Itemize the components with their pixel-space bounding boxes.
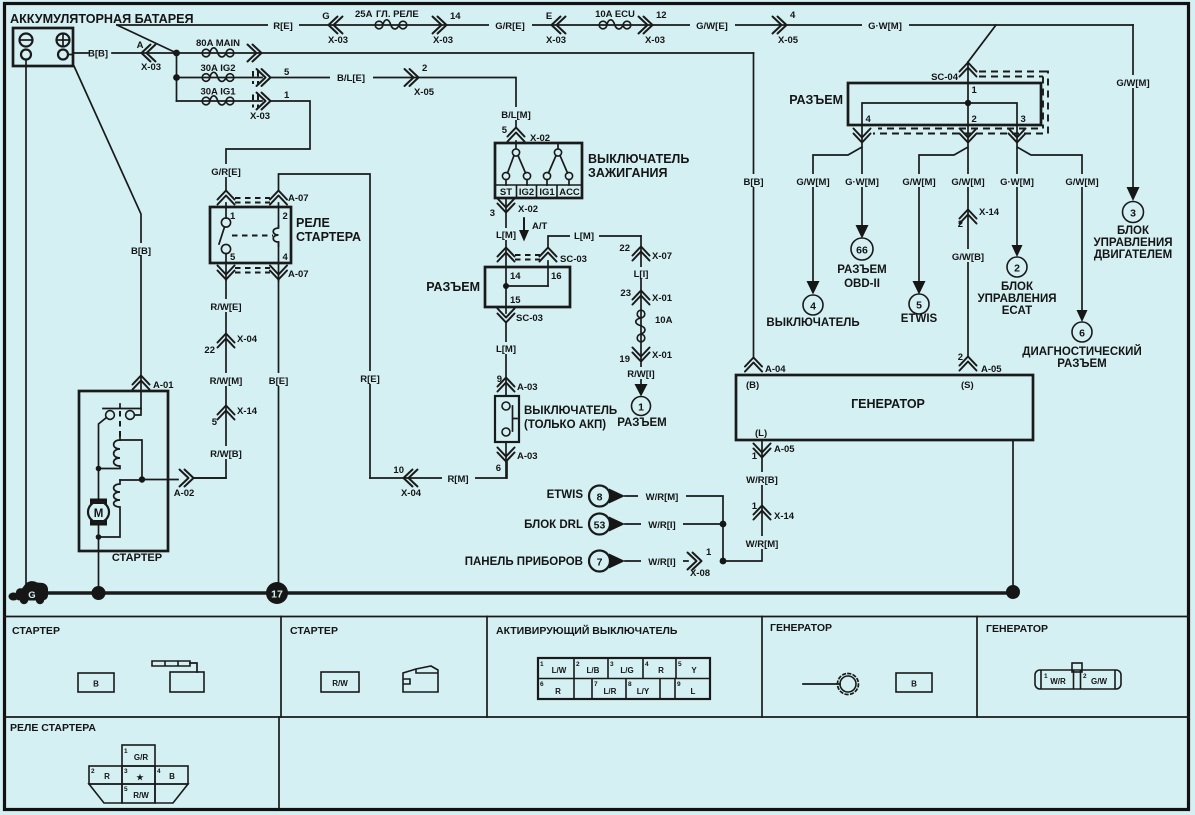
svg-text:R: R bbox=[658, 666, 664, 675]
wire L[M] down to A-03 bbox=[505, 323, 507, 396]
svg-text:L[M]: L[M] bbox=[496, 230, 516, 241]
connector 1 X-08 bbox=[688, 553, 702, 570]
wire below AT switch bbox=[505, 442, 507, 478]
arrow + target 6 diag bbox=[1077, 310, 1088, 322]
svg-text:12: 12 bbox=[656, 10, 667, 21]
svg-text:5: 5 bbox=[678, 661, 682, 668]
svg-text:(L): (L) bbox=[755, 428, 767, 439]
svg-text:G/W[M]: G/W[M] bbox=[902, 177, 935, 188]
svg-text:IG2: IG2 bbox=[519, 187, 534, 198]
svg-text:A: A bbox=[137, 40, 144, 51]
svg-text:СТАРТЕР: СТАРТЕР bbox=[112, 552, 162, 564]
svg-text:23: 23 bbox=[620, 288, 631, 299]
connector 1 X-14 bbox=[754, 506, 771, 520]
svg-text:(B): (B) bbox=[746, 380, 759, 391]
svg-text:B[B]: B[B] bbox=[88, 49, 108, 60]
svg-text:5: 5 bbox=[284, 67, 290, 78]
svg-text:ВЫКЛЮЧАТЕЛЬ: ВЫКЛЮЧАТЕЛЬ bbox=[588, 152, 689, 166]
svg-text:L/B: L/B bbox=[587, 666, 600, 675]
svg-text:17: 17 bbox=[271, 589, 283, 601]
svg-text:G/W[M]: G/W[M] bbox=[796, 177, 829, 188]
wire L pin down bbox=[723, 440, 762, 561]
wire pin2 branches bbox=[919, 125, 968, 356]
legend generator icon bbox=[803, 674, 858, 695]
wire relay pins into box bbox=[226, 203, 279, 226]
svg-text:B/L[E]: B/L[E] bbox=[337, 73, 365, 84]
node A-02 junction bbox=[139, 476, 145, 482]
label R/W[I] bbox=[621, 367, 661, 380]
starter relay K1 box bbox=[210, 207, 291, 263]
svg-text:ДВИГАТЕЛЕМ: ДВИГАТЕЛЕМ bbox=[1094, 249, 1172, 261]
labels G/W[M] row bbox=[791, 174, 836, 188]
label G/W[M] top bbox=[862, 18, 909, 32]
svg-text:W/R[I]: W/R[I] bbox=[648, 520, 675, 531]
connector 6 A-03 bbox=[498, 448, 515, 462]
wire B/L[E] bbox=[271, 78, 516, 129]
svg-text:R[E]: R[E] bbox=[273, 21, 293, 32]
svg-text:АКТИВИРУЮЩИЙ ВЫКЛЮЧАТЕЛЬ: АКТИВИРУЮЩИЙ ВЫКЛЮЧАТЕЛЬ bbox=[496, 624, 678, 637]
connector 2 A-05 bbox=[960, 357, 977, 371]
connector SC-03 below bbox=[498, 309, 515, 323]
svg-text:G/R[E]: G/R[E] bbox=[211, 167, 241, 178]
arrow + target 3 engine ECU bbox=[1127, 187, 1140, 201]
svg-text:IG1: IG1 bbox=[539, 187, 555, 198]
label G/W[B] bbox=[946, 249, 990, 263]
svg-text:7: 7 bbox=[597, 557, 603, 569]
starter motor M bbox=[90, 499, 107, 505]
connector pin3 chevron bbox=[1009, 129, 1026, 143]
svg-text:B[B]: B[B] bbox=[131, 246, 151, 257]
wire pin3 branches bbox=[1017, 125, 1082, 311]
svg-text:4: 4 bbox=[157, 768, 161, 775]
svg-text:10A ECU: 10A ECU bbox=[595, 9, 635, 20]
svg-text:X-07: X-07 bbox=[652, 251, 672, 262]
middle L chain from ignition bbox=[640, 236, 642, 384]
node pin14 junction bbox=[506, 267, 548, 313]
svg-text:80A MAIN: 80A MAIN bbox=[196, 38, 240, 49]
arrow + target 2 ECAT bbox=[1012, 245, 1023, 257]
svg-text:A-07: A-07 bbox=[288, 193, 309, 204]
wire R[E] top row bbox=[117, 24, 1133, 26]
svg-text:8: 8 bbox=[597, 492, 603, 504]
fuse 10A ECU bbox=[599, 20, 631, 29]
wire pin16 up and L[M] branch bbox=[548, 236, 641, 286]
ground bus bbox=[22, 591, 1013, 594]
svg-text:СТАРТЕР: СТАРТЕР bbox=[12, 625, 60, 637]
svg-text:БЛОК DRL: БЛОК DRL bbox=[524, 519, 583, 531]
svg-text:A-03: A-03 bbox=[517, 382, 538, 393]
label R/W[E] bbox=[203, 299, 249, 313]
label L[M] horizontal bbox=[570, 229, 599, 242]
svg-text:X-04: X-04 bbox=[237, 334, 258, 345]
svg-text:ACC: ACC bbox=[559, 187, 580, 198]
svg-text:ETWIS: ETWIS bbox=[901, 313, 938, 325]
svg-text:1: 1 bbox=[752, 501, 758, 512]
label R[M] bbox=[442, 471, 475, 485]
svg-text:X-05: X-05 bbox=[414, 87, 435, 98]
svg-text:A-02: A-02 bbox=[174, 488, 195, 499]
svg-text:L/Y: L/Y bbox=[637, 687, 650, 696]
svg-text:ВЫКЛЮЧАТЕЛЬ: ВЫКЛЮЧАТЕЛЬ bbox=[766, 317, 859, 329]
svg-text:2: 2 bbox=[958, 352, 963, 363]
svg-text:14: 14 bbox=[510, 271, 521, 282]
svg-text:L[I]: L[I] bbox=[634, 269, 649, 280]
wire battery plus B[B] bbox=[68, 53, 176, 55]
legend starter2 connector icon bbox=[403, 666, 438, 692]
svg-text:8: 8 bbox=[628, 681, 632, 688]
svg-text:СТАРТЕРА: СТАРТЕРА bbox=[296, 230, 361, 244]
svg-text:3: 3 bbox=[610, 661, 614, 668]
label R/W[M] bbox=[202, 373, 250, 387]
svg-text:X-03: X-03 bbox=[546, 35, 566, 46]
svg-text:G/W[M]: G/W[M] bbox=[1065, 177, 1098, 188]
arrow + target 5 ETWIS bbox=[913, 281, 926, 295]
connector block SC-03 (РАЗЪЕМ) bbox=[485, 267, 570, 307]
wire battery minus to ground bbox=[25, 60, 27, 585]
svg-text:1: 1 bbox=[706, 547, 712, 558]
svg-text:L/G: L/G bbox=[620, 666, 633, 675]
svg-text:G/R: G/R bbox=[134, 753, 148, 762]
svg-text:X-03: X-03 bbox=[250, 111, 270, 122]
svg-text:РЕЛЕ СТАРТЕРА: РЕЛЕ СТАРТЕРА bbox=[10, 722, 96, 734]
svg-text:B[E]: B[E] bbox=[269, 376, 289, 387]
svg-text:30A IG1: 30A IG1 bbox=[200, 87, 236, 98]
svg-text:Y: Y bbox=[691, 666, 697, 675]
starter coil 1 top link bbox=[120, 440, 142, 480]
legend table frame bbox=[4, 616, 1189, 618]
label W/R[B] bbox=[739, 472, 785, 486]
svg-text:9: 9 bbox=[497, 374, 502, 385]
target circle 1 РАЗЪЕМ bbox=[632, 397, 651, 416]
svg-text:1: 1 bbox=[972, 85, 978, 96]
svg-text:2: 2 bbox=[422, 63, 427, 74]
legend starter connector icon bbox=[152, 661, 204, 692]
svg-text:УПРАВЛЕНИЯ: УПРАВЛЕНИЯ bbox=[1094, 237, 1173, 249]
svg-text:3: 3 bbox=[1021, 114, 1026, 125]
ignition switch contacts bbox=[502, 143, 572, 185]
connector A X-03 bbox=[142, 45, 156, 62]
label B[E] bbox=[265, 373, 293, 387]
svg-text:1: 1 bbox=[1044, 673, 1048, 680]
label L[M] bbox=[492, 228, 521, 241]
svg-text:АККУМУЛЯТОРНАЯ БАТАРЕЯ: АККУМУЛЯТОРНАЯ БАТАРЕЯ bbox=[10, 12, 194, 26]
svg-text:РЕЛЕ: РЕЛЕ bbox=[296, 216, 330, 230]
svg-text:3: 3 bbox=[124, 768, 128, 775]
svg-text:2: 2 bbox=[1083, 673, 1087, 680]
svg-text:X-14: X-14 bbox=[237, 406, 258, 417]
svg-text:R/W: R/W bbox=[133, 791, 149, 800]
wire relay pin2 feed bbox=[279, 174, 371, 478]
connector pin2 chevron bbox=[960, 129, 977, 143]
svg-text:SC-03: SC-03 bbox=[560, 254, 587, 265]
relay coil bbox=[273, 226, 278, 246]
svg-text:66: 66 bbox=[856, 245, 868, 257]
svg-text:ГЛ. РЕЛЕ: ГЛ. РЕЛЕ bbox=[376, 9, 419, 20]
svg-text:ЗАЖИГАНИЯ: ЗАЖИГАНИЯ bbox=[588, 166, 667, 180]
svg-text:ГЕНЕРАТОР: ГЕНЕРАТОР bbox=[986, 623, 1048, 635]
node battery junction bbox=[173, 50, 180, 57]
svg-text:5: 5 bbox=[124, 786, 128, 793]
svg-text:W/R[I]: W/R[I] bbox=[648, 557, 675, 568]
arrow + target 4 bbox=[807, 281, 820, 295]
connector A-02 bbox=[180, 470, 194, 487]
node 17 bbox=[266, 582, 288, 604]
svg-text:РАЗЪЕМ: РАЗЪЕМ bbox=[426, 280, 480, 294]
legend generator B box bbox=[896, 673, 932, 692]
svg-text:1: 1 bbox=[638, 402, 644, 414]
svg-text:1: 1 bbox=[284, 90, 290, 101]
svg-text:X-03: X-03 bbox=[141, 62, 161, 73]
label G/W[E] bbox=[690, 18, 735, 32]
wire A-02 out bbox=[142, 478, 226, 480]
svg-text:G/W[B]: G/W[B] bbox=[952, 252, 984, 263]
wire B[B] right bbox=[753, 53, 755, 357]
connector 3 X-02 bbox=[498, 199, 515, 213]
svg-text:W/R[M]: W/R[M] bbox=[646, 492, 679, 503]
svg-text:15: 15 bbox=[510, 295, 521, 306]
svg-text:X-02: X-02 bbox=[518, 204, 538, 215]
svg-text:A/T: A/T bbox=[532, 221, 548, 232]
legend generator2 connector bbox=[1035, 663, 1121, 689]
connector A-01 bbox=[133, 376, 150, 390]
svg-text:L[M]: L[M] bbox=[496, 344, 516, 355]
svg-text:L/R: L/R bbox=[604, 687, 617, 696]
svg-text:7: 7 bbox=[594, 681, 598, 688]
svg-text:R: R bbox=[555, 687, 561, 696]
svg-text:OBD-II: OBD-II bbox=[844, 278, 880, 290]
svg-text:БЛОК: БЛОК bbox=[1001, 281, 1034, 293]
wire motor to ground bbox=[98, 526, 100, 594]
svg-text:G·W[M]: G·W[M] bbox=[868, 21, 902, 32]
connector 22 X-07 bbox=[633, 247, 650, 261]
starter coil 2 bbox=[99, 480, 121, 537]
svg-text:X-08: X-08 bbox=[690, 568, 710, 579]
svg-text:W/R[M]: W/R[M] bbox=[746, 539, 779, 550]
label R[E] bbox=[268, 18, 299, 32]
svg-text:ПАНЕЛЬ ПРИБОРОВ: ПАНЕЛЬ ПРИБОРОВ bbox=[465, 556, 583, 568]
svg-text:10: 10 bbox=[393, 465, 404, 476]
legend starter B box bbox=[78, 673, 114, 692]
svg-text:ДИАГНОСТИЧЕСКИЙ: ДИАГНОСТИЧЕСКИЙ bbox=[1022, 345, 1141, 358]
fuse 80A MAIN row bbox=[177, 52, 754, 54]
svg-text:2: 2 bbox=[972, 114, 977, 125]
svg-text:G/W[M]: G/W[M] bbox=[1116, 78, 1149, 89]
wire diagonal to SC-04 bbox=[968, 25, 996, 62]
label W/R[M] bbox=[738, 536, 786, 550]
relay dashed link bbox=[232, 235, 273, 237]
svg-text:X-03: X-03 bbox=[645, 35, 665, 46]
connector A-04 bbox=[745, 358, 762, 372]
connector A-07 lower pair bbox=[218, 266, 235, 280]
svg-text:ВЫКЛЮЧАТЕЛЬ: ВЫКЛЮЧАТЕЛЬ bbox=[524, 405, 617, 417]
connector 9 A-03 bbox=[498, 378, 515, 392]
svg-text:B/L[M]: B/L[M] bbox=[501, 110, 531, 121]
wire pin4 down bbox=[278, 242, 280, 281]
svg-text:14: 14 bbox=[450, 11, 461, 22]
svg-text:19: 19 bbox=[619, 354, 630, 365]
ignition switch U-IGN box bbox=[495, 143, 582, 198]
svg-text:2: 2 bbox=[576, 661, 580, 668]
connector SC-03 pair bbox=[498, 248, 515, 262]
svg-text:R: R bbox=[104, 772, 110, 781]
svg-text:22: 22 bbox=[204, 345, 215, 356]
fuse 10A vertical bbox=[636, 310, 645, 342]
svg-text:M: M bbox=[94, 508, 104, 520]
label L[I] bbox=[629, 267, 654, 280]
svg-text:2: 2 bbox=[958, 219, 963, 230]
svg-text:G/W: G/W bbox=[1091, 677, 1107, 686]
svg-text:X-03: X-03 bbox=[433, 35, 453, 46]
legend pin table bbox=[538, 658, 710, 699]
svg-text:A-03: A-03 bbox=[517, 451, 538, 462]
svg-text:4: 4 bbox=[810, 301, 816, 313]
connector MAIN X-03 bbox=[248, 45, 262, 62]
svg-text:22: 22 bbox=[619, 243, 630, 254]
wire B[E] bbox=[278, 281, 280, 584]
wire diagonal battery to starter bbox=[74, 66, 141, 377]
svg-text:6: 6 bbox=[496, 463, 501, 474]
svg-text:4: 4 bbox=[645, 661, 649, 668]
arrow to target 1 bbox=[635, 384, 648, 397]
svg-text:A-04: A-04 bbox=[765, 364, 786, 375]
svg-text:R/W[B]: R/W[B] bbox=[210, 449, 242, 460]
svg-text:A-07: A-07 bbox=[288, 269, 309, 280]
svg-text:B: B bbox=[169, 772, 175, 781]
connector 5 X-14 bbox=[218, 406, 235, 420]
svg-text:1: 1 bbox=[124, 748, 128, 755]
svg-text:G: G bbox=[322, 11, 329, 22]
svg-text:3: 3 bbox=[1130, 208, 1136, 220]
svg-text:A-01: A-01 bbox=[153, 380, 174, 391]
svg-text:E: E bbox=[546, 11, 552, 22]
wire into ignition switch bbox=[515, 141, 517, 148]
generator G1 box bbox=[736, 375, 1033, 440]
svg-text:X-01: X-01 bbox=[652, 350, 673, 361]
connector pin4 chevron bbox=[854, 129, 871, 143]
fuse 30A IG1 row bbox=[177, 100, 263, 102]
connector 2 X-05 bbox=[405, 69, 419, 86]
wire generator ground bbox=[1012, 440, 1014, 592]
svg-text:2: 2 bbox=[283, 211, 288, 222]
connector 4 X-05 bbox=[773, 17, 787, 34]
svg-text:X-14: X-14 bbox=[979, 207, 1000, 218]
wire pin4 branches bbox=[813, 125, 862, 282]
connector SC-04 bbox=[960, 63, 977, 77]
svg-text:R[E]: R[E] bbox=[360, 374, 380, 385]
label R/W[B] bbox=[203, 446, 249, 460]
svg-text:X-01: X-01 bbox=[652, 293, 673, 304]
dashed shield right bbox=[1043, 72, 1048, 134]
wire R[M] horizontal bbox=[370, 462, 507, 478]
svg-text:1: 1 bbox=[752, 451, 758, 462]
label B[B] vertical bbox=[128, 243, 155, 257]
svg-text:X-03: X-03 bbox=[328, 35, 348, 46]
svg-text:5: 5 bbox=[916, 300, 922, 312]
connector 12 X-03 bbox=[639, 17, 653, 34]
connector E X-03 bbox=[552, 17, 566, 34]
label G/R[E] relay bbox=[205, 164, 248, 178]
svg-text:B: B bbox=[93, 680, 99, 689]
svg-text:X-04: X-04 bbox=[401, 488, 422, 499]
switch (AT only) box bbox=[495, 396, 519, 442]
svg-text:X-14: X-14 bbox=[774, 511, 795, 522]
label B/L[M] bbox=[494, 107, 539, 121]
connector 22 X-04 bbox=[218, 334, 235, 348]
relay contact bbox=[221, 218, 230, 227]
label R[E] vertical bbox=[356, 371, 385, 385]
svg-text:4: 4 bbox=[283, 252, 289, 263]
connector 5 X-02 bbox=[508, 128, 525, 142]
connector 10 X-04 bbox=[404, 470, 418, 487]
svg-text:1: 1 bbox=[540, 661, 544, 668]
dashed shield bottom bbox=[873, 129, 1043, 134]
svg-text:РАЗЪЕМ: РАЗЪЕМ bbox=[617, 417, 666, 429]
svg-text:6: 6 bbox=[1079, 328, 1085, 340]
svg-text:★: ★ bbox=[136, 773, 144, 782]
svg-text:B[B]: B[B] bbox=[743, 177, 763, 188]
svg-text:L/W: L/W bbox=[552, 666, 567, 675]
svg-text:B: B bbox=[911, 680, 917, 689]
fuse 25A main relay bbox=[375, 20, 407, 29]
svg-text:2: 2 bbox=[1014, 263, 1020, 275]
svg-text:ЕСАТ: ЕСАТ bbox=[1002, 305, 1032, 317]
svg-text:R/W: R/W bbox=[332, 679, 348, 688]
svg-text:L[M]: L[M] bbox=[574, 231, 594, 242]
starter coil 1 bbox=[99, 437, 121, 469]
wire ST down bbox=[505, 198, 507, 267]
connector 23 X-01 bbox=[633, 291, 650, 305]
svg-text:30A IG2: 30A IG2 bbox=[200, 63, 235, 74]
svg-text:4: 4 bbox=[866, 114, 872, 125]
svg-text:G/W[M]: G/W[M] bbox=[951, 177, 984, 188]
svg-text:53: 53 bbox=[594, 520, 606, 532]
svg-text:G·W[M]: G·W[M] bbox=[1000, 177, 1034, 188]
ground icon G bbox=[9, 581, 49, 604]
connector 2 X-14 right bbox=[960, 210, 977, 224]
wire diagonal to R[E] bbox=[117, 25, 177, 53]
svg-text:G/R[E]: G/R[E] bbox=[495, 21, 525, 32]
svg-text:2: 2 bbox=[91, 768, 95, 775]
connector A-07 upper pair bbox=[218, 191, 235, 205]
svg-text:ETWIS: ETWIS bbox=[547, 489, 584, 501]
svg-text:R/W[I]: R/W[I] bbox=[627, 369, 654, 380]
svg-text:SC-03: SC-03 bbox=[516, 313, 543, 324]
wire R/W chain bbox=[194, 280, 226, 478]
svg-text:4: 4 bbox=[790, 10, 796, 21]
svg-text:(S): (S) bbox=[961, 380, 974, 391]
wire G/W[M] far right bbox=[1132, 25, 1134, 188]
svg-text:W/R: W/R bbox=[1050, 677, 1066, 686]
svg-text:ST: ST bbox=[500, 187, 512, 198]
node generator ground bbox=[1006, 585, 1020, 599]
connector IG2 5 X-03 bbox=[253, 71, 258, 84]
svg-text:R[M]: R[M] bbox=[447, 474, 468, 485]
svg-text:БЛОК: БЛОК bbox=[1117, 225, 1150, 237]
legend relay pin diagram bbox=[89, 745, 188, 803]
wire IG1 to relay bbox=[226, 101, 310, 190]
node starter ground bbox=[92, 586, 106, 600]
svg-text:СТАРТЕР: СТАРТЕР bbox=[290, 625, 338, 637]
svg-text:9: 9 bbox=[677, 681, 681, 688]
svg-text:G·W[M]: G·W[M] bbox=[845, 177, 879, 188]
connector G X-03 bbox=[329, 17, 343, 34]
ignition switch cells ST IG2 IG1 ACC bbox=[495, 185, 582, 198]
wire pin5 down bbox=[225, 254, 227, 280]
legend starter2 R/W box bbox=[321, 672, 359, 692]
connector block SC-04 (РАЗЪЕМ) bbox=[848, 83, 1041, 125]
svg-text:5: 5 bbox=[212, 417, 218, 428]
svg-text:A-05: A-05 bbox=[774, 444, 795, 455]
